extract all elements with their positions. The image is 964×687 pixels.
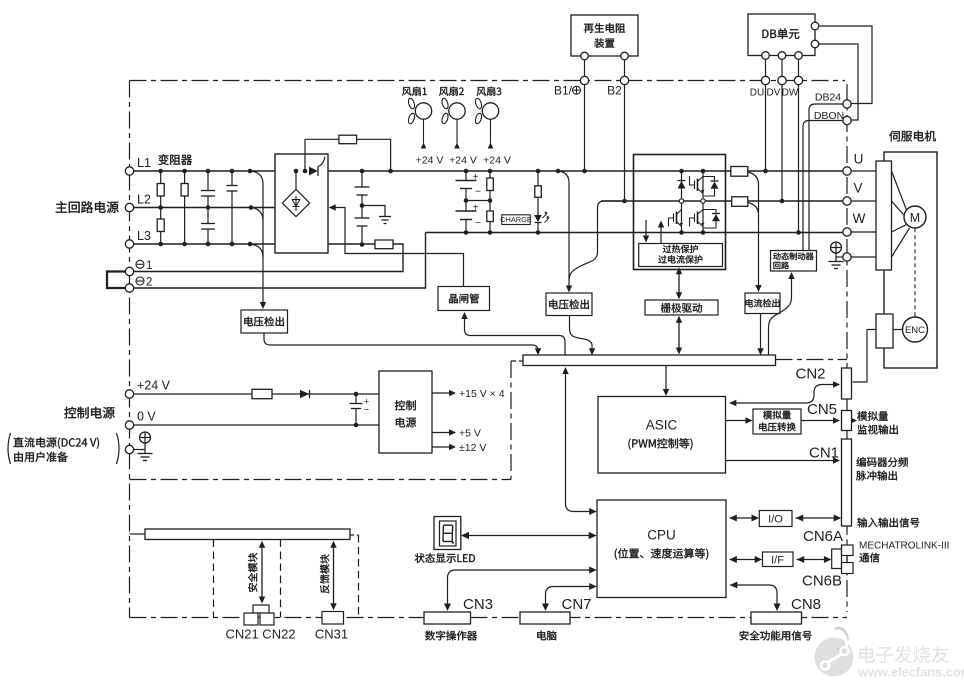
label safety module (vertical)	[248, 553, 257, 592]
terminal DV	[778, 76, 786, 84]
wire U sense to current detector	[748, 172, 759, 288]
varistor column 2 (L1-L3)	[184, 171, 186, 244]
svg-text:DB24: DB24	[815, 92, 841, 104]
svg-text:B2: B2	[607, 84, 622, 98]
wire border to backplane	[130, 533, 146, 535]
svg-text:DU: DU	[750, 88, 764, 99]
DB unit bottom terminals	[762, 52, 770, 60]
svg-text:U: U	[854, 152, 864, 167]
svg-text:ENC: ENC	[905, 325, 925, 336]
wire input voltage detector to control bus	[264, 333, 538, 351]
terminal L2	[125, 203, 133, 211]
svg-text:MECHATROLINK-III: MECHATROLINK-III	[859, 541, 949, 552]
label I/O signals	[857, 518, 919, 528]
main electrolytic capacitor bank	[465, 171, 467, 181]
control bus bar	[523, 355, 776, 366]
terminal V	[843, 197, 851, 205]
inverter IGBT Q4	[697, 212, 699, 225]
labels encoder pulse output	[856, 457, 908, 467]
symbol circled plus	[573, 86, 581, 94]
encoder connector	[876, 314, 893, 348]
wire V sense to current detector	[748, 203, 759, 214]
wire U terminal to motor connector	[851, 170, 891, 172]
terminal B1	[580, 76, 588, 84]
dynamic brake circuit box	[771, 251, 817, 272]
svg-text:CN21 CN22: CN21 CN22	[225, 627, 295, 642]
terminal PE control	[125, 445, 133, 453]
DB unit right terminals	[811, 22, 819, 30]
option module bay dashed divider 1	[213, 540, 215, 618]
regen unit terminals	[581, 52, 589, 60]
wire DB unit upper output to DB24	[819, 26, 872, 104]
wire control bus to ASIC	[665, 366, 667, 393]
svg-text:−: −	[475, 218, 481, 229]
terminal DW	[794, 76, 802, 84]
svg-text:CN3: CN3	[463, 596, 493, 613]
wire DU to U phase	[765, 85, 767, 171]
wire control bus to thyristor trigger	[465, 317, 566, 355]
svg-text:DV: DV	[767, 88, 781, 99]
svg-text:B1/: B1/	[554, 84, 573, 98]
PE ground symbol near W	[836, 256, 843, 258]
connector CN3	[424, 612, 471, 624]
wires CPU to I/F to CN6	[730, 559, 760, 561]
label varistor	[158, 154, 192, 165]
ASIC box	[598, 397, 726, 474]
I/F box	[763, 552, 794, 567]
svg-text:+: +	[473, 203, 479, 214]
svg-text:DW: DW	[782, 88, 799, 99]
terminal W	[843, 228, 851, 236]
wire W terminal to motor connector	[851, 231, 891, 233]
SCR gate wire from thyristor trigger box	[329, 204, 336, 210]
svg-text:CHARGE: CHARGE	[500, 215, 532, 224]
wire CPU to CN8	[730, 585, 777, 606]
wire V phase	[601, 200, 843, 202]
wire theta2 to N rail riser	[134, 233, 426, 289]
wire CPU to CN3	[448, 570, 593, 606]
svg-text:W: W	[853, 211, 866, 226]
svg-text:CN2: CN2	[795, 366, 825, 383]
regen diode D1	[681, 171, 683, 201]
wire B2 to regen transistor node	[624, 85, 626, 201]
svg-text:L2: L2	[137, 193, 151, 207]
svg-text:+24 V: +24 V	[449, 155, 477, 167]
svg-text:−: −	[475, 187, 481, 198]
svg-text:CN1: CN1	[809, 445, 839, 462]
thyristor trigger box	[438, 287, 490, 311]
connector CN31	[322, 612, 344, 625]
label feedback module (vertical)	[320, 554, 329, 593]
fuse on N line	[375, 240, 393, 249]
wire PE terminal to motor connector	[851, 256, 891, 258]
label main circuit power	[56, 201, 119, 213]
svg-text:CN8: CN8	[791, 596, 821, 613]
wire control bus to dynamic brake circuit	[769, 274, 792, 355]
fan 2 symbol	[441, 98, 449, 110]
terminal L1	[125, 167, 133, 175]
wire DC voltage detector to control bus	[570, 316, 593, 352]
jumper link theta1-theta2	[107, 272, 125, 289]
wire analog converter to CN5	[801, 420, 837, 422]
option module bay dashed divider 3	[358, 535, 360, 618]
wire encoder to CN2	[893, 329, 903, 331]
terminal DU	[761, 76, 769, 84]
fan 3 symbol	[474, 98, 482, 110]
control supply outputs	[432, 392, 452, 394]
terminal 0V	[125, 421, 133, 429]
double arrow safety module	[261, 545, 263, 600]
junction dots input network	[158, 169, 163, 174]
snubber capacitors with grounded midpoint	[361, 171, 363, 187]
control power supply box	[379, 371, 432, 453]
wires DB unit to border terminals DU DV DW	[765, 59, 767, 76]
wire fan 2 supply	[456, 119, 458, 143]
connector CN7	[520, 612, 570, 624]
CHARGE label box	[502, 215, 530, 225]
watermark logo	[815, 638, 854, 677]
wire regen node down to DC voltage detector	[569, 201, 625, 280]
wire B1 to P rail	[584, 85, 586, 171]
varistor column 1 (L1-L2, L2-L3)	[160, 171, 162, 244]
svg-text:1: 1	[146, 260, 152, 272]
diode on +24V	[300, 390, 309, 398]
labels fans	[402, 87, 427, 96]
double arrow status LED to CPU	[465, 535, 594, 537]
overheat overcurrent protection box	[639, 244, 723, 267]
IGBT power module box	[634, 155, 726, 270]
svg-text:CN31: CN31	[315, 627, 348, 642]
analog voltage converter box	[753, 409, 801, 434]
svg-text:CN7: CN7	[561, 596, 591, 613]
wires CPU to I/O to CN1	[730, 517, 756, 519]
svg-text:I/F: I/F	[771, 554, 784, 566]
bleeder resistor chain	[489, 171, 491, 178]
svg-text:+24 V: +24 V	[483, 155, 511, 167]
svg-text:L1: L1	[137, 156, 151, 170]
svg-text:CN5: CN5	[807, 401, 837, 418]
terminal DB24	[843, 100, 851, 108]
arrows to protection block	[645, 220, 647, 238]
wire L2 into rectifier	[134, 207, 275, 209]
svg-text:+15 V × 4: +15 V × 4	[459, 388, 505, 400]
connector CN6 bracket	[832, 549, 842, 569]
wire fan 1 supply	[423, 119, 425, 143]
svg-text:+24 V: +24 V	[137, 379, 171, 393]
svg-text:+: +	[473, 172, 479, 183]
capacitor column 2 (L1-L3)	[231, 171, 233, 186]
svg-text:L3: L3	[137, 229, 151, 243]
svg-text:M: M	[910, 211, 920, 225]
regenerative resistor unit box	[571, 15, 638, 56]
filter capacitor control	[354, 392, 359, 397]
servopack dashed border bottom	[130, 617, 848, 619]
bridge rectifier box	[275, 154, 328, 253]
svg-text:2: 2	[146, 277, 152, 289]
svg-text:±12 V: ±12 V	[459, 442, 486, 454]
svg-text:V: V	[853, 181, 862, 196]
servo motor outline	[884, 152, 937, 368]
wire DB24 to dynamic brake circuit	[809, 104, 843, 251]
wire regen B2	[624, 60, 626, 77]
current detector box	[745, 293, 780, 314]
freewheel diode D4	[703, 210, 716, 214]
wire current detector to control bus	[760, 314, 762, 352]
connector CN6B	[842, 563, 854, 574]
input voltage detector box	[241, 310, 288, 333]
double arrow gate drive to protection	[678, 271, 680, 297]
big parentheses	[8, 433, 11, 464]
wire +24V	[134, 393, 379, 395]
connector CN21 CN22	[253, 605, 269, 613]
servopack dashed border right	[846, 84, 848, 612]
control power compartment dashed right	[510, 361, 512, 480]
svg-text:CN6B: CN6B	[802, 573, 842, 590]
V phase shunt	[732, 197, 748, 207]
svg-text:www.elecfans.com: www.elecfans.com	[857, 665, 964, 680]
stub between CN6A and CN6B	[846, 556, 848, 563]
terminal theta1	[125, 267, 133, 275]
terminal DBON	[843, 116, 851, 124]
wire fan 3 supply	[490, 119, 492, 143]
motor winding fan-in wires	[892, 171, 907, 210]
svg-text:ASIC: ASIC	[646, 418, 678, 433]
terminal motor PE	[843, 253, 851, 261]
DC voltage detector box	[546, 293, 592, 316]
terminal B2	[620, 76, 628, 84]
connector CN5	[842, 411, 852, 431]
motor power connector	[876, 161, 892, 270]
wire L3 into rectifier and N output with corner to theta1	[134, 244, 403, 272]
watermark text	[859, 646, 948, 663]
wire regen B1	[584, 60, 586, 77]
wire DBON to dynamic brake circuit	[803, 121, 843, 251]
wire DB unit lower output to DBON	[819, 44, 858, 120]
wire DW to W phase	[798, 85, 800, 233]
inrush bypass resistor over SCR	[305, 139, 339, 171]
CPU box	[597, 500, 726, 598]
wire CN2 to ASIC encoder input	[730, 385, 837, 404]
terminal theta2	[125, 284, 133, 292]
motor M	[904, 206, 926, 228]
option module backplane bar	[145, 529, 350, 540]
I/O box	[759, 511, 792, 527]
U phase shunt	[731, 167, 748, 177]
svg-text:0 V: 0 V	[137, 410, 156, 424]
wire CN5 monitor output	[852, 420, 854, 422]
module node dots	[679, 169, 684, 174]
wire N rail / W phase	[426, 232, 843, 234]
terminal U	[843, 167, 851, 175]
wire DV to V phase	[781, 85, 783, 201]
terminal L3	[125, 240, 133, 248]
dashed link from control bus bar right to border	[776, 359, 848, 361]
status display 7-segment	[434, 517, 461, 550]
bridge rectifier diamond symbol	[295, 171, 297, 189]
connector CN1	[842, 439, 852, 526]
label servo motor	[889, 131, 936, 142]
connector CN8	[751, 612, 802, 624]
gate drive box	[645, 300, 718, 315]
servopack dashed border left	[129, 81, 131, 618]
labels analog monitor	[857, 411, 888, 421]
svg-text:CPU: CPU	[647, 528, 676, 543]
dashed link to control bus bar left	[511, 360, 523, 362]
fuse on +24V	[252, 389, 272, 398]
double arrow gate drive to control bus	[678, 319, 680, 351]
dashed shaft motor to encoder	[914, 228, 916, 316]
thyristor SCR on P rail	[309, 167, 318, 176]
capacitor column 1 (L1-L2, L2-L3)	[207, 171, 209, 191]
svg-text:CN6A: CN6A	[803, 528, 843, 545]
label theta2	[136, 277, 144, 285]
connector CN2	[842, 368, 852, 399]
wire control bus to CPU	[566, 368, 593, 512]
ground symbol at snubber midpoint	[362, 206, 385, 217]
inverter IGBT Q1	[702, 171, 704, 233]
connector CN6A	[842, 545, 854, 556]
encoder ENC	[903, 317, 928, 342]
option module bay dashed divider 2	[280, 540, 282, 618]
freewheel diode D2	[703, 177, 715, 182]
control PE ground symbol	[134, 449, 145, 451]
servopack dashed border top	[130, 80, 846, 82]
svg-text:−: −	[364, 405, 369, 415]
control power compartment dashed bottom	[130, 479, 512, 481]
wire 0V	[134, 424, 379, 426]
wire P rail to DC voltage detector	[556, 169, 561, 174]
svg-text:+24 V: +24 V	[416, 155, 444, 167]
terminal +24V	[125, 390, 133, 398]
wire ASIC to analog converter	[726, 420, 750, 422]
wire CPU to CN7	[546, 587, 593, 607]
svg-text:I/O: I/O	[768, 514, 783, 526]
regen IGBT Q3	[681, 201, 683, 233]
wire V terminal to motor connector	[851, 200, 891, 202]
double arrow feedback module	[333, 545, 335, 607]
CHARGE indicator LED column	[537, 171, 539, 186]
DB unit box	[748, 14, 815, 56]
label status display LED	[415, 553, 475, 563]
wire ASIC to CN1	[726, 460, 837, 462]
svg-text:+5 V: +5 V	[459, 428, 481, 440]
wire taps to input voltage detector	[250, 171, 263, 304]
label theta1	[136, 260, 144, 268]
fan 1 symbol	[407, 98, 415, 110]
wire L1 / DC P rail	[134, 170, 843, 172]
